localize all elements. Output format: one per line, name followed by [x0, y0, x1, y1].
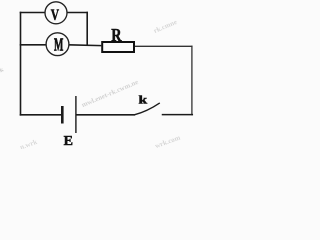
battery long plate (positive) — [75, 96, 77, 133]
wire top row right — [67, 12, 87, 14]
wire A row left — [21, 44, 47, 46]
watermark band bottom-left — [19, 138, 38, 152]
switch k blade — [134, 103, 160, 115]
svg-text:k: k — [139, 94, 148, 107]
wire bottom left to battery — [21, 114, 62, 116]
wire resistor to right — [135, 45, 192, 47]
watermark band bottom-right — [154, 134, 182, 151]
battery short plate (negative) — [61, 106, 64, 124]
svg-text:V: V — [51, 7, 59, 24]
resistor R box — [102, 42, 134, 52]
wire switch contact to right corner — [163, 114, 193, 116]
svg-text:M: M — [54, 36, 64, 56]
svg-text:R: R — [111, 25, 122, 45]
watermark band top-right — [152, 18, 178, 35]
wire battery to switch pivot — [77, 114, 134, 116]
wire right vertical — [191, 46, 193, 114]
wire A row right to resistor — [69, 44, 101, 47]
watermark band center — [80, 78, 139, 109]
wire top row left — [21, 12, 46, 14]
watermark band left edge — [0, 65, 5, 79]
wire left vertical — [20, 13, 22, 115]
voltmeter V1 circle — [45, 2, 67, 24]
ammeter A1 circle — [46, 33, 69, 56]
wire drop from V row to A row — [86, 13, 88, 46]
svg-text:E: E — [64, 134, 73, 149]
